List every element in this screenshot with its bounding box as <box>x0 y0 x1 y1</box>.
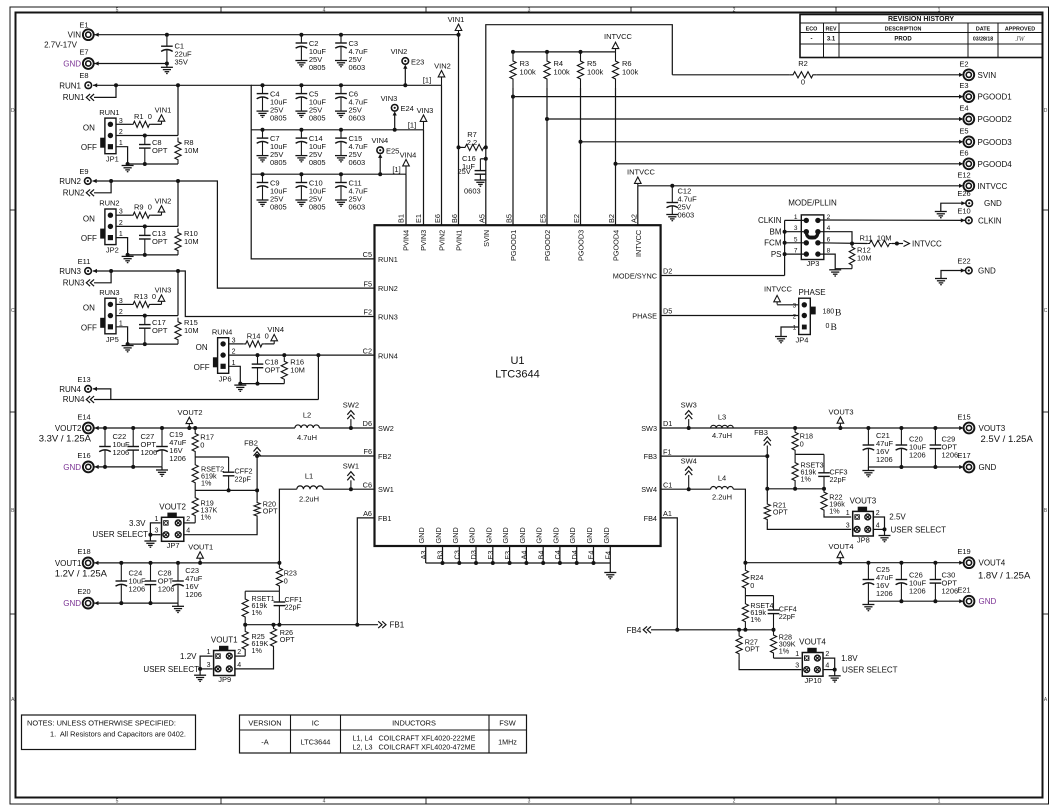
ground <box>156 467 168 476</box>
svg-text:3: 3 <box>846 522 850 529</box>
net arrow INTVCC <box>627 167 656 186</box>
svg-text:0805: 0805 <box>270 113 287 122</box>
wire SW1 feed <box>279 489 296 563</box>
svg-text:2: 2 <box>876 510 880 517</box>
wire VOUT3 gnd bus <box>868 465 963 469</box>
svg-text:0: 0 <box>200 440 204 449</box>
svg-text:4: 4 <box>825 663 829 670</box>
version table <box>240 715 527 753</box>
svg-text:0805: 0805 <box>309 113 326 122</box>
svg-text:GND: GND <box>484 527 493 543</box>
svg-text:B: B <box>831 323 837 333</box>
wire pin2 row <box>116 224 178 228</box>
label USER SELECT <box>842 666 898 675</box>
svg-text:PROD: PROD <box>894 37 912 43</box>
net arrow SW2 <box>343 401 359 429</box>
svg-text:E18: E18 <box>77 547 90 556</box>
junction <box>103 426 107 430</box>
svg-text:RUN4: RUN4 <box>212 327 232 336</box>
svg-text:ECO: ECO <box>806 27 818 33</box>
net arrow FB4 <box>627 626 651 635</box>
svg-text:1206: 1206 <box>909 587 926 596</box>
wire JP3 pin8 gnd <box>818 254 835 270</box>
jumper JP10 <box>795 638 829 685</box>
svg-text:C5: C5 <box>363 250 372 259</box>
label 2.5V <box>889 513 906 522</box>
capacitor CFF2 <box>223 457 253 490</box>
terminal E22 (GND) <box>957 257 996 276</box>
resistor RSET4 <box>742 596 773 630</box>
svg-text:1%: 1% <box>252 608 263 617</box>
svg-text:NOTES: UNLESS OTHERWISE SPECIF: NOTES: UNLESS OTHERWISE SPECIFIED: <box>27 719 176 728</box>
resistor R16 <box>281 357 305 384</box>
svg-text:VIN2: VIN2 <box>391 47 408 56</box>
capacitor C3 <box>335 35 368 72</box>
svg-text:OFF: OFF <box>81 143 97 152</box>
svg-text:E4: E4 <box>587 551 596 560</box>
svg-text:B: B <box>835 309 841 319</box>
svg-text:ON: ON <box>83 304 95 313</box>
svg-text:JP5: JP5 <box>106 335 119 344</box>
svg-text:E1: E1 <box>414 214 423 223</box>
svg-text:1%: 1% <box>829 507 840 516</box>
svg-text:E12: E12 <box>957 170 970 179</box>
svg-text:MODE/PLLIN: MODE/PLLIN <box>788 199 837 208</box>
wire pin1 gnd <box>116 327 178 346</box>
capacitor C10 <box>295 174 326 211</box>
svg-text:REV: REV <box>825 27 836 33</box>
wire JP3 left pins <box>783 220 807 275</box>
svg-text:FB4: FB4 <box>644 514 657 523</box>
svg-text:1. All Resistors and Capacito: 1. All Resistors and Capacitors are 0402… <box>50 730 186 739</box>
capacitor C12 <box>667 186 698 220</box>
junction <box>165 33 169 37</box>
svg-text:5: 5 <box>116 799 119 805</box>
svg-text:10M: 10M <box>184 237 199 246</box>
capacitor C15 <box>335 130 368 167</box>
svg-text:SW1: SW1 <box>343 462 359 471</box>
svg-text:VIN3: VIN3 <box>417 106 434 115</box>
capacitor C17 <box>139 316 168 345</box>
svg-text:1.8V / 1.25A: 1.8V / 1.25A <box>978 571 1031 582</box>
svg-text:100k: 100k <box>587 68 604 77</box>
svg-text:0805: 0805 <box>270 202 287 211</box>
wire IC GND bus <box>426 546 611 565</box>
svg-text:E3: E3 <box>486 551 495 560</box>
svg-text:3: 3 <box>528 8 531 14</box>
svg-text:0603: 0603 <box>678 211 695 220</box>
svg-text:VOUT2: VOUT2 <box>159 502 186 511</box>
svg-text:VIN4: VIN4 <box>372 136 389 145</box>
svg-text:-: - <box>811 37 813 43</box>
svg-text:JP6: JP6 <box>219 374 232 383</box>
junction <box>261 172 265 176</box>
inductor L1 <box>297 471 323 503</box>
wire PGOOD1 to E3 <box>513 95 963 99</box>
svg-text:GND: GND <box>551 527 560 543</box>
svg-text:JP3: JP3 <box>807 259 820 268</box>
svg-text:FB1: FB1 <box>378 514 391 523</box>
svg-text:USER SELECT: USER SELECT <box>92 530 148 539</box>
net arrow VOUT2 <box>177 408 202 428</box>
svg-text:F2: F2 <box>363 308 372 317</box>
svg-text:VIN4: VIN4 <box>267 325 284 334</box>
wire JP3 pin4 jog <box>818 232 854 246</box>
wire VOUT3 rail <box>793 426 963 430</box>
svg-text:VOUT1: VOUT1 <box>188 542 213 551</box>
wire INTVCC col A2 <box>637 186 639 225</box>
svg-text:E13: E13 <box>77 375 90 384</box>
svg-text:B6: B6 <box>450 214 459 223</box>
svg-text:VIN2: VIN2 <box>434 62 451 71</box>
wire VIN3 rail <box>251 129 424 131</box>
junction <box>339 33 343 37</box>
svg-text:RUN2: RUN2 <box>63 188 85 197</box>
jumper JP6 <box>194 327 236 383</box>
svg-text:INTVCC: INTVCC <box>978 182 1008 191</box>
wire MODE/SYNC <box>661 275 785 277</box>
svg-text:CLKIN: CLKIN <box>978 216 1002 225</box>
wire PGOOD4 to E6 <box>616 162 964 166</box>
wire RUN4 row <box>229 353 375 357</box>
svg-text:VERSION: VERSION <box>248 719 281 728</box>
jumper JP3 <box>788 199 837 269</box>
ground <box>194 675 206 681</box>
svg-text:JP7: JP7 <box>167 541 180 550</box>
svg-text:SW2: SW2 <box>343 401 359 410</box>
svg-text:2.5V / 1.25A: 2.5V / 1.25A <box>981 434 1034 445</box>
wire CLKIN to E10 <box>818 219 965 221</box>
svg-text:ON: ON <box>196 343 208 352</box>
svg-text:VOUT1: VOUT1 <box>55 559 82 568</box>
junction <box>299 172 303 176</box>
svg-text:A4: A4 <box>520 551 529 560</box>
net arrow VIN3 <box>408 106 434 130</box>
svg-text:GND: GND <box>63 463 81 472</box>
svg-text:2: 2 <box>733 799 736 805</box>
svg-text:INTVCC: INTVCC <box>764 285 793 294</box>
svg-text:PVIN4: PVIN4 <box>401 230 410 251</box>
wire RSET2 top <box>195 456 228 458</box>
svg-text:0: 0 <box>284 577 288 586</box>
svg-text:VOUT2: VOUT2 <box>177 408 202 417</box>
svg-text:2: 2 <box>186 516 190 523</box>
net stub RUN3 <box>63 271 111 287</box>
svg-text:3.1: 3.1 <box>827 37 836 43</box>
svg-text:E11: E11 <box>78 257 91 266</box>
ground <box>862 601 874 611</box>
svg-text:4: 4 <box>237 662 241 669</box>
capacitor C23 <box>172 563 203 603</box>
svg-text:4.7uH: 4.7uH <box>297 433 317 442</box>
svg-text:1%: 1% <box>252 646 263 655</box>
svg-text:1%: 1% <box>201 513 212 522</box>
wire FB1 bus <box>243 623 378 627</box>
wire VOUT4 gnd bus <box>868 599 963 603</box>
wire R28 to JP10 pin1 <box>774 657 802 659</box>
wire SVIN top <box>486 25 673 226</box>
junction <box>261 83 265 87</box>
svg-text:PVIN2: PVIN2 <box>438 230 447 251</box>
svg-text:0603: 0603 <box>464 187 481 196</box>
svg-text:2.2uH: 2.2uH <box>712 492 732 501</box>
capacitor C19 <box>156 428 187 467</box>
svg-text:INDUCTORS: INDUCTORS <box>392 719 436 728</box>
wire JP4 pin1 gnd <box>781 327 799 337</box>
wire JP10 right gnd <box>823 658 837 676</box>
svg-text:GND: GND <box>535 527 544 543</box>
svg-text:03/28/18: 03/28/18 <box>973 37 993 43</box>
svg-text:A6: A6 <box>363 509 372 518</box>
label USER SELECT <box>92 530 148 539</box>
resistor RSET3 <box>792 454 824 488</box>
svg-text:R11 10M: R11 10M <box>860 233 892 242</box>
wire FB3 <box>661 454 770 458</box>
svg-text:GND: GND <box>979 463 997 472</box>
wire PGOOD4 col <box>614 88 618 225</box>
svg-text:RUN1: RUN1 <box>59 81 81 90</box>
svg-text:1206: 1206 <box>876 455 893 464</box>
net arrow VIN4 <box>392 151 416 175</box>
jumper JP2 <box>81 199 123 255</box>
svg-text:VOUT4: VOUT4 <box>979 559 1006 568</box>
terminal E4 (PGOOD2) <box>959 104 1012 125</box>
resistor R26 <box>270 625 295 650</box>
svg-text:RUN2: RUN2 <box>378 284 398 293</box>
svg-text:C2: C2 <box>363 347 372 356</box>
svg-text:SVIN: SVIN <box>482 230 491 247</box>
terminal E21 (GND) <box>957 585 996 606</box>
net arrow SW3 <box>681 401 697 429</box>
wire JP3 pin6 <box>818 242 867 245</box>
svg-text:R14 0: R14 0 <box>247 331 269 340</box>
svg-text:OPT: OPT <box>280 635 295 644</box>
svg-text:GND: GND <box>585 527 594 543</box>
svg-text:D1: D1 <box>663 419 672 428</box>
svg-text:D4: D4 <box>570 550 579 559</box>
ground <box>172 603 184 612</box>
junction <box>299 83 303 87</box>
svg-text:VIN4: VIN4 <box>400 151 417 160</box>
wire FB4 from A1 <box>661 518 678 630</box>
wire PVIN3 <box>423 130 425 225</box>
wire RSET1 top <box>245 590 279 592</box>
capacitor C24 <box>116 563 147 603</box>
svg-text:GND: GND <box>63 599 81 608</box>
ground <box>935 279 947 285</box>
svg-text:INTVCC: INTVCC <box>634 230 643 257</box>
svg-text:D: D <box>1044 108 1048 114</box>
net stub RUN1 <box>63 85 116 102</box>
wire INTVCC rail <box>638 184 963 188</box>
terminal E18 (VOUT1) <box>55 547 108 579</box>
svg-text:D5: D5 <box>663 307 672 316</box>
wire E25 stem <box>378 157 382 176</box>
resistor R18 <box>792 428 813 454</box>
wire RUN2 drop <box>177 181 179 226</box>
svg-text:100k: 100k <box>554 68 571 77</box>
junction <box>299 33 303 37</box>
capacitor C11 <box>335 174 368 211</box>
wire RUN2 <box>93 179 375 288</box>
wire pin1 gnd <box>229 366 285 385</box>
U1 bottom pin labels <box>417 527 612 559</box>
wire VOUT1 rail <box>94 561 281 565</box>
revision history table <box>800 15 1043 58</box>
resistor R24 <box>742 563 763 596</box>
svg-text:10M: 10M <box>184 326 199 335</box>
wire GND E7 to C1 <box>95 63 167 65</box>
svg-text:RUN2: RUN2 <box>99 199 119 208</box>
svg-text:0: 0 <box>826 323 830 330</box>
svg-text:10M: 10M <box>290 366 305 375</box>
resistor R2 <box>672 59 963 87</box>
svg-text:0: 0 <box>800 439 804 448</box>
wire E26 gnd <box>941 203 966 211</box>
resistor R6 <box>612 52 638 88</box>
ground <box>144 541 156 547</box>
net arrow FB3 <box>754 428 771 456</box>
svg-text:VOUT4: VOUT4 <box>828 542 853 551</box>
svg-text:SVIN: SVIN <box>978 71 997 80</box>
svg-text:1206: 1206 <box>113 448 130 457</box>
svg-text:0805: 0805 <box>270 158 287 167</box>
svg-text:PGOOD3: PGOOD3 <box>978 138 1013 147</box>
resistor R19 <box>192 490 217 523</box>
svg-text:FB3: FB3 <box>754 428 768 437</box>
svg-text:1206: 1206 <box>185 590 202 599</box>
svg-text:GND: GND <box>434 527 443 543</box>
svg-text:[1]: [1] <box>423 76 431 85</box>
wire PGOOD2 to E4 <box>547 117 963 121</box>
wire VIN4 rail <box>251 173 406 175</box>
label 1.2V <box>180 652 197 661</box>
wire R21 to JP8 pin3 <box>767 522 851 529</box>
svg-text:APPROVED: APPROVED <box>1005 27 1035 33</box>
terminal E3 (PGOOD1) <box>959 81 1012 102</box>
svg-text:VIN3: VIN3 <box>155 286 172 295</box>
svg-text:E3: E3 <box>959 81 968 90</box>
svg-text:F1: F1 <box>663 447 672 456</box>
capacitor C26 <box>896 563 927 602</box>
label USER SELECT <box>143 665 199 674</box>
terminal E23 (VIN2) <box>391 47 425 69</box>
U1 right pin labels <box>613 267 673 523</box>
net arrow INTVCC <box>604 32 633 52</box>
svg-text:0603: 0603 <box>349 202 366 211</box>
svg-text:RUN3: RUN3 <box>63 278 85 287</box>
svg-text:E25: E25 <box>386 147 399 156</box>
svg-text:E5: E5 <box>959 126 968 135</box>
svg-text:1: 1 <box>938 8 941 14</box>
svg-text:OPT: OPT <box>152 146 168 155</box>
wire JP7 left gnd <box>148 523 160 541</box>
U1 top pin labels <box>397 214 643 261</box>
svg-text:1MHz: 1MHz <box>498 738 517 747</box>
resistor R5 <box>577 52 603 88</box>
capacitor C21 <box>863 428 894 467</box>
wire SW4 row <box>661 487 711 491</box>
svg-text:L2, L3 COILCRAFT XFL4020-472: L2, L3 COILCRAFT XFL4020-472ME <box>353 743 476 752</box>
svg-text:VOUT3: VOUT3 <box>828 407 853 416</box>
junction <box>339 172 343 176</box>
svg-text:FCM: FCM <box>764 239 782 248</box>
svg-text:1: 1 <box>154 516 158 523</box>
resistor R13 <box>116 292 162 308</box>
svg-text:RUN3: RUN3 <box>378 313 398 322</box>
svg-text:[1]: [1] <box>408 120 416 129</box>
label 1.8V <box>841 654 858 663</box>
jumper JP9 <box>207 636 242 685</box>
svg-text:F6: F6 <box>363 447 372 456</box>
resistor R12 <box>835 244 871 269</box>
svg-text:C4: C4 <box>553 550 562 559</box>
net stub RUN4 <box>63 355 319 404</box>
svg-text:PHASE: PHASE <box>798 288 825 297</box>
terminal E24 (VIN3) <box>381 94 414 116</box>
svg-text:JP9: JP9 <box>218 675 231 684</box>
terminal E25 (VIN4) <box>372 136 400 158</box>
svg-text:SW2: SW2 <box>378 424 394 433</box>
capacitor C18 <box>252 355 281 384</box>
terminal E1 (VIN) <box>44 21 99 50</box>
svg-text:REVISION HISTORY: REVISION HISTORY <box>888 16 954 23</box>
svg-text:E2: E2 <box>959 59 968 68</box>
wire E22 gnd <box>941 271 965 279</box>
junction <box>187 426 191 430</box>
resistor R8 <box>175 138 199 165</box>
svg-text:OFF: OFF <box>81 323 97 332</box>
svg-text:1206: 1206 <box>942 587 959 596</box>
svg-text:E22: E22 <box>957 257 970 266</box>
net arrow FB2 <box>244 438 261 456</box>
jumper JP1 <box>81 108 123 164</box>
jumper JP7 <box>154 502 190 550</box>
svg-text:OPT: OPT <box>745 645 760 654</box>
net arrow VOUT3 <box>828 407 853 428</box>
svg-text:C1: C1 <box>663 480 672 489</box>
svg-text:JP10: JP10 <box>804 676 821 685</box>
wire RUN1 drop <box>177 85 179 135</box>
wire pin1 gnd <box>116 147 178 166</box>
svg-text:F5: F5 <box>363 279 372 288</box>
svg-text:USER SELECT: USER SELECT <box>842 666 898 675</box>
capacitor C9 <box>257 174 288 211</box>
wire RSET4 top <box>745 595 773 597</box>
svg-text:PGOOD1: PGOOD1 <box>509 230 518 261</box>
svg-text:ON: ON <box>83 124 95 133</box>
svg-text:1: 1 <box>793 325 797 332</box>
svg-text:1.8V: 1.8V <box>841 654 858 663</box>
capacitor C30 <box>930 563 959 602</box>
net arrow SW4 <box>681 457 697 490</box>
junction <box>670 184 674 188</box>
svg-text:D6: D6 <box>363 419 372 428</box>
wire PVIN4 <box>405 174 407 225</box>
wire pullup rail <box>513 51 616 53</box>
net arrow VIN2 <box>423 62 451 86</box>
resistor RSET1 <box>242 591 275 625</box>
svg-text:E4: E4 <box>959 104 968 113</box>
svg-text:VOUT3: VOUT3 <box>850 497 877 506</box>
resistor R15 <box>175 318 199 345</box>
svg-text:OFF: OFF <box>194 363 210 372</box>
svg-text:2: 2 <box>733 8 736 14</box>
junction <box>299 128 303 132</box>
wire RUN4 <box>93 389 111 400</box>
capacitor C8 <box>139 136 168 165</box>
svg-text:E26: E26 <box>957 189 970 198</box>
